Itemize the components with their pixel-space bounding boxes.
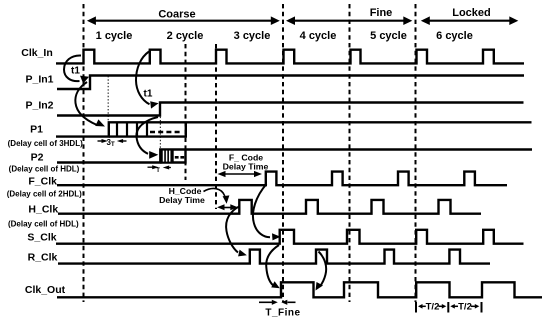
svg-text:S_Clk: S_Clk [27,232,56,244]
curved arrow R_Clk to Clk_Out fall [319,252,327,287]
curved arrow P_In1 to P1 [75,82,97,125]
svg-text:F_Clk: F_Clk [28,176,57,188]
Fine range arrow [286,7,412,25]
svg-text:4 cycle: 4 cycle [300,30,337,42]
curved arrow S_Clk to Clk_Out rise [266,245,279,285]
svg-text:P_In2: P_In2 [25,100,53,112]
svg-text:Clk_In: Clk_In [21,47,53,59]
P2 hatched block [160,150,173,163]
svg-text:6 cycle: 6 cycle [436,30,473,42]
curved arrow Clk_In pulse2 to P_In2 [136,52,150,105]
svg-text:Fine: Fine [370,7,393,19]
Coarse range arrow [87,9,280,26]
wire P2 waveform [57,150,532,163]
annotation T cell width [148,165,171,174]
wire P_In2 waveform [57,103,524,116]
wire F_Clk waveform [57,172,507,186]
svg-text:Coarse: Coarse [158,9,195,21]
annotation 3T cell width [98,138,127,148]
vertical dashed cycle boundary line x=83.5 [83,4,85,302]
svg-text:T: T [156,168,160,174]
vertical dashed line x=415.5 (Fine/Locked boundary) [415,4,417,302]
H_Code pointer arrow [204,188,225,196]
svg-text:1 cycle: 1 cycle [96,30,133,42]
svg-text:(Delay cell of HDL): (Delay cell of HDL) [9,165,80,174]
svg-text:Delay Time: Delay Time [223,162,269,172]
svg-text:5 cycle: 5 cycle [370,30,407,42]
svg-text:2 cycle: 2 cycle [167,30,204,42]
svg-text:T: T [111,142,115,148]
wire P1 waveform [56,122,532,136]
svg-text:R_Clk: R_Clk [28,252,58,264]
Locked range arrow [421,7,519,25]
curved arrow H_Clk to R_Clk pulse [226,206,240,253]
svg-text:t1: t1 [144,89,153,100]
annotation T_Fine [259,300,301,319]
wire H_Clk waveform [58,200,481,214]
svg-text:T/2: T/2 [458,302,472,313]
svg-text:(Delay cell of 2HDL): (Delay cell of 2HDL) [7,190,82,199]
curved arrow P_In2 to P2 [136,117,158,154]
svg-text:P_In1: P_In1 [25,74,53,86]
wire Clk_In waveform [56,50,524,64]
svg-text:T_Fine: T_Fine [265,308,300,319]
wire Clk_Out waveform [57,282,542,297]
curved arrow Clk_In to P_In1 [64,55,81,81]
P2 delay box bottom and right edge [160,150,185,163]
P1 dashed mid line [150,131,181,134]
svg-text:(Delay cell of 3HDL): (Delay cell of 3HDL) [8,139,83,148]
wire P_In1 waveform [57,76,524,90]
vertical dashed line x=185.5 (P1/P2 fall) [185,44,187,180]
vertical dashed line x=349.5 [349,4,351,302]
svg-text:Delay Time: Delay Time [159,195,205,205]
dotted helper line at P1 rise x=108.2 [107,76,109,121]
F_Code delay span arrow [218,171,263,177]
svg-text:(Delay cell of HDL): (Delay cell of HDL) [8,220,79,229]
svg-text:t1: t1 [71,66,80,77]
P1 delay box bottom and right edge [109,122,186,136]
svg-text:H_Clk: H_Clk [28,204,58,216]
svg-text:3 cycle: 3 cycle [234,30,271,42]
curved arrow F_Clk to S_Clk pulse [253,184,270,237]
svg-text:T/2: T/2 [426,302,440,313]
wire S_Clk waveform [56,230,524,244]
annotation T/2 T/2 [416,302,482,313]
wire R_Clk waveform [58,250,490,264]
svg-text:Locked: Locked [452,7,491,19]
P2 dashes [175,156,184,159]
dotted helper line at P2 rise x=160.4 [159,104,161,149]
svg-text:Clk_Out: Clk_Out [25,284,66,296]
svg-text:P1: P1 [30,124,43,136]
P1 hatch dividers [117,122,147,136]
vertical dashed line x=283 (Coarse/Fine boundary) [282,4,284,302]
svg-text:P2: P2 [31,152,44,164]
vertical dashed line x=216 [215,44,217,209]
H_Code delay span arrow [217,204,238,210]
